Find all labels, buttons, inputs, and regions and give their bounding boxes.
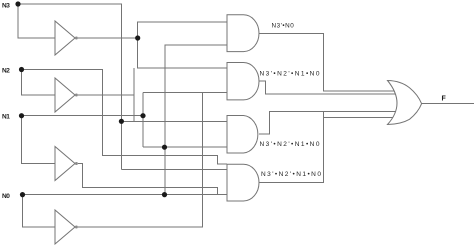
node G3 lower input junction dot	[162, 145, 167, 150]
wire inverter U3 output N1'	[78, 164, 217, 195]
wire G4 output riser	[259, 111, 323, 182]
node N1 rail end junction dot	[140, 113, 145, 118]
wire N3 drop to inverter U1	[18, 4, 55, 38]
wire N2 rail	[22, 70, 228, 165]
wire N3 top rail	[18, 4, 121, 170]
wire inverter U1 output N3'	[78, 37, 138, 39]
wire N3 to G4 upper input	[121, 169, 227, 171]
svg-text:F: F	[442, 96, 447, 103]
svg-text:N3'•N2'•N1•N0: N3'•N2'•N1•N0	[260, 71, 321, 78]
node N2 junction dot	[19, 67, 24, 72]
wire N3 branch to G3 upper input	[121, 120, 227, 122]
wire N0 rail to G4 lower input	[23, 194, 228, 196]
svg-text:N0: N0	[2, 193, 10, 200]
wire N0 riser to G1 lower input	[165, 45, 227, 195]
node N3 junction dot	[15, 1, 20, 6]
wire G1 output to OR	[259, 33, 396, 91]
wire N1 drop to inverter U3	[22, 116, 56, 164]
node N3/G3 junction dot	[119, 119, 124, 124]
wire N0 drop to inverter U4	[23, 195, 56, 227]
node N1 junction dot	[19, 113, 24, 118]
svg-text:N3: N3	[2, 3, 10, 10]
inverter U4 (N0)	[55, 210, 75, 244]
or-gate U5	[388, 81, 422, 125]
AND gate G3	[227, 116, 258, 154]
wire N3' to G1 upper input	[138, 22, 227, 38]
svg-text:N1: N1	[2, 114, 10, 121]
node N3' junction dot	[135, 35, 140, 40]
inverter U1 (N3)	[55, 21, 75, 55]
AND gate G2	[227, 63, 259, 100]
wire N3' to G2 upper input	[138, 38, 227, 68]
svg-text:N3'•N0: N3'•N0	[272, 23, 295, 30]
svg-text:N2: N2	[2, 68, 10, 75]
inverter U3 (N1)	[55, 147, 75, 181]
wire G3 lower input	[143, 146, 227, 148]
wire OR output F	[422, 103, 474, 105]
wire G2 output to OR	[259, 81, 396, 94]
node N0 rail junction dot	[162, 192, 167, 197]
inverter U2 (N2)	[55, 78, 75, 112]
wire N1 vertical to G2/G3	[142, 93, 144, 148]
wire inverter U2 output N2'	[78, 94, 134, 96]
svg-text:N3'•N2'•N1•N0: N3'•N2'•N1•N0	[260, 141, 321, 148]
wire G3 output to OR	[259, 111, 396, 134]
wire N2' drop to G3 upper line	[133, 68, 135, 121]
node N0 junction dot	[20, 192, 25, 197]
svg-text:N3'•N2'•N1•N0: N3'•N2'•N1•N0	[261, 171, 322, 178]
wire N2 drop to inverter U2	[22, 70, 56, 96]
wire G4 branch to OR lower input	[323, 117, 396, 119]
AND gate G4	[227, 164, 259, 201]
wire inverter U4 output N0'	[78, 93, 202, 228]
AND gate G1	[227, 15, 259, 52]
wire G2 lower input	[143, 92, 227, 94]
wire N1 rail	[22, 115, 144, 117]
